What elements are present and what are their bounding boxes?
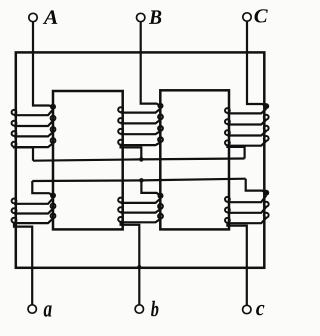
label c [256,305,264,315]
wire lead A to winding U1 [33,22,53,107]
winding W3 (phase c secondary, right limb) turns [227,196,266,224]
wire secondary neutral bus [32,179,245,181]
terminal C [243,13,251,21]
core outline (three-limb core, outer edge) [16,52,264,267]
winding W2 (phase b secondary, middle limb) turns [121,198,161,222]
label a [44,305,52,316]
winding W3 (phase c secondary, right limb) loops [225,190,269,223]
terminal b [135,305,143,313]
winding U1 (phase A primary, left limb) turns [14,110,53,148]
wire W2 bottom to terminal b [121,222,140,305]
wire lead B to winding U2 [141,22,161,106]
wire W1 bottom to terminal a [14,223,32,305]
winding W2 (phase b secondary, middle limb) loops [118,193,163,222]
wire W3 bottom to terminal c [227,223,246,306]
core window right [160,90,229,229]
label B [149,10,161,23]
junction blob b wire [137,265,141,269]
winding U3 (phase C primary, right limb) turns [227,109,266,146]
winding U3 (phase C primary, right limb) loops [225,103,269,145]
winding U2 (phase B primary, middle limb) loops [118,103,163,145]
wire primary neutral bus [33,159,245,161]
terminal A [29,13,37,21]
wire lead C to winding U3 [247,21,266,106]
junction dot bus1/U2 [139,157,144,162]
label C [254,9,267,22]
winding U1 (phase A primary, left limb) loops [12,104,56,147]
label b [151,301,158,316]
winding W1 (phase a secondary, left limb) turns [14,198,53,223]
junction dot bus2/W2 [139,178,144,183]
winding U2 (phase B primary, middle limb) turns [121,109,161,146]
wire U2 bottom riser to bus [121,145,142,160]
wire bus2 riser to W2 top [141,180,160,195]
wire U3 bottom to bus right end [227,145,244,158]
wire U1 bottom to primary neutral bus [14,147,33,161]
winding W1 (phase a secondary, left limb) loops [12,193,56,223]
core window left [53,91,123,229]
terminal B [137,13,145,21]
terminal a [28,305,36,313]
wire bus2 to W1 top [32,181,53,196]
terminal c [243,305,251,313]
label A [43,10,58,23]
wire bus2 to W3 top [246,179,267,193]
